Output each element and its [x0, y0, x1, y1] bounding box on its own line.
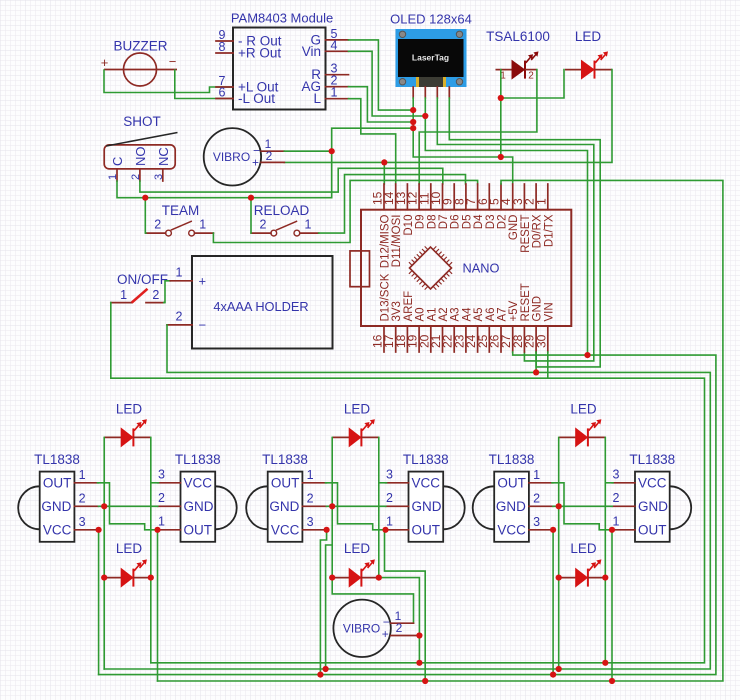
svg-text:+: + — [199, 274, 207, 289]
svg-text:1: 1 — [534, 198, 548, 205]
pin nano 26 stub — [500, 326, 502, 352]
wire buzzer- to PAM pin6 — [175, 70, 233, 99]
svg-text:+R Out: +R Out — [238, 46, 281, 61]
svg-text:-L Out: -L Out — [238, 91, 275, 106]
diode LED pair1 bottom — [104, 559, 151, 586]
switch ON/OFF lever — [132, 289, 148, 303]
svg-text:1: 1 — [107, 174, 119, 180]
pin TL1838 M1 1 stub — [74, 482, 98, 484]
svg-text:GND: GND — [269, 499, 299, 514]
svg-text:A2: A2 — [438, 307, 450, 321]
pin nano 29 stub — [535, 326, 537, 352]
pin ONOFF 2 stub — [146, 302, 164, 304]
svg-text:LED: LED — [344, 402, 371, 417]
pin 7 PAM stub — [216, 86, 233, 88]
junction OUT pair1 — [154, 527, 160, 533]
svg-text:4xAAA HOLDER: 4xAAA HOLDER — [213, 299, 308, 314]
pin nano 5 stub — [500, 184, 502, 210]
svg-text:NC: NC — [156, 147, 171, 166]
svg-text:6: 6 — [219, 86, 226, 100]
wire nano pin29 gnd drop — [535, 352, 537, 372]
svg-text:VCC: VCC — [271, 522, 300, 537]
pin TL1838 M4 1 stub — [386, 529, 409, 531]
svg-text:C: C — [110, 157, 125, 166]
pin TL1838 M3 2 stub — [302, 505, 326, 507]
pin 9 PAM stub — [216, 40, 233, 42]
wire OLED pinA gnd vertical — [413, 98, 501, 157]
svg-text:2: 2 — [154, 218, 161, 232]
svg-text:OLED 128x64: OLED 128x64 — [390, 12, 472, 27]
wire OLED pinC to nano pin28 — [437, 98, 594, 361]
svg-text:1: 1 — [331, 86, 338, 100]
pin TEAM 2 stub — [146, 232, 166, 234]
svg-text:GND: GND — [638, 499, 668, 514]
pin TL1838 M2 3 stub — [158, 482, 181, 484]
junction OUT pair3 — [382, 527, 388, 533]
pin TL1838 M2 2 stub — [158, 505, 181, 507]
pin TL1838 M1 3 stub — [74, 529, 98, 531]
svg-text:GND: GND — [508, 215, 520, 241]
svg-text:GND: GND — [41, 499, 71, 514]
motor VIBRO bottom — [333, 600, 390, 657]
wire GND row pair5 — [553, 505, 612, 507]
svg-text:OUT: OUT — [412, 522, 441, 537]
svg-text:D12/MISO: D12/MISO — [380, 214, 392, 268]
svg-text:A5: A5 — [473, 307, 485, 321]
svg-text:2: 2 — [266, 149, 273, 163]
svg-text:TL1838: TL1838 — [175, 452, 221, 467]
svg-text:NO: NO — [133, 147, 148, 167]
junction OLED pinA / PAM AG — [410, 119, 416, 125]
junction gnd bus / RELOAD — [248, 195, 254, 201]
svg-text:3: 3 — [533, 515, 540, 529]
pin TL1838 M5 2 stub — [529, 505, 553, 507]
pin TL1838 M5 3 stub — [529, 529, 553, 531]
wire OUT link pair3 — [326, 483, 386, 530]
svg-text:2: 2 — [533, 491, 540, 505]
wire VCC M1 to bus — [98, 530, 100, 675]
svg-text:+: + — [252, 156, 259, 170]
wire VCC M2 to led vertical — [151, 482, 159, 484]
wire LED right chain pair3 — [378, 437, 380, 577]
pin nano 22 stub — [453, 326, 455, 352]
junction LED2 left pair5 — [556, 575, 562, 581]
wire LED left chain pair5 — [558, 437, 560, 577]
pin nano 18 stub — [406, 326, 408, 352]
svg-text:D3: D3 — [485, 215, 497, 230]
wire nano +5V rail — [99, 352, 716, 675]
svg-text:OUT: OUT — [43, 475, 72, 490]
pin nano 12 stub — [418, 184, 420, 210]
pin SHOT 3 stub — [162, 169, 164, 181]
svg-text:2: 2 — [176, 310, 183, 324]
junction OUT pair5 — [609, 527, 615, 533]
svg-text:1: 1 — [613, 514, 620, 528]
svg-text:OUT: OUT — [497, 475, 526, 490]
module OLED display — [396, 29, 467, 87]
svg-text:D4: D4 — [473, 214, 485, 229]
switch TEAM contacts — [166, 221, 195, 236]
svg-text:3: 3 — [79, 515, 86, 529]
svg-text:GND: GND — [412, 499, 442, 514]
wire gnd chain to bus pair2 — [326, 545, 333, 669]
svg-text:TEAM: TEAM — [162, 203, 200, 218]
svg-text:LED: LED — [344, 541, 371, 556]
wire PAM Vin to OLED pinB — [349, 51, 426, 116]
pin 1 PAM stub — [326, 98, 349, 100]
svg-text:+5V: +5V — [508, 300, 520, 321]
pin TL1838 M5 1 stub — [529, 482, 553, 484]
pin nano 1 stub — [547, 184, 549, 210]
junction LED2 left pair3 — [329, 575, 335, 581]
svg-text:D9: D9 — [415, 215, 427, 230]
wire LED4 left to vibro- — [332, 578, 413, 624]
wire PAM G to OLED pinA — [349, 40, 414, 110]
module TL1838 M5 body — [473, 486, 495, 529]
pin nano 20 stub — [430, 326, 432, 352]
svg-text:2: 2 — [528, 71, 534, 82]
pin OLED 1 stub — [412, 87, 414, 98]
svg-text:A0: A0 — [415, 307, 427, 321]
wire LED right chain pair5 — [604, 437, 606, 577]
svg-text:A7: A7 — [497, 307, 509, 321]
wire LED right to vibro line — [284, 70, 612, 163]
wire OUT to bus pair1 — [157, 530, 159, 681]
junction OUT bus pair3 — [609, 678, 615, 684]
wire GND row pair3 — [327, 505, 386, 507]
junction OLED pinB / PAM Vin — [422, 113, 428, 119]
pin TL1838 M6 3 stub — [612, 482, 635, 484]
module TL1838 M2 body — [215, 486, 237, 529]
wire buzzer+ to PAM pin7 — [104, 70, 233, 93]
svg-text:AREF: AREF — [403, 291, 415, 322]
motor VIBRO top — [204, 128, 261, 185]
svg-text:30: 30 — [534, 334, 548, 348]
pin OLED 2 stub — [424, 87, 426, 98]
wire LED4 right to vibro+ and bus — [379, 578, 420, 663]
pin nano 8 stub — [465, 184, 467, 210]
svg-text:OUT: OUT — [271, 475, 300, 490]
junction +5V / OLED vcc — [584, 352, 590, 358]
wire SHOT C to gnd bus — [117, 128, 413, 198]
svg-text:1: 1 — [158, 514, 165, 528]
pin nano 28 stub — [523, 326, 525, 352]
pin SHOT 2 stub — [139, 169, 141, 181]
junction VCC M1 — [96, 527, 102, 533]
pin ONOFF 1 stub — [111, 302, 132, 304]
junction LED2 right pair3 — [376, 575, 382, 581]
diode LED top right — [565, 51, 612, 78]
svg-text:TSAL6100: TSAL6100 — [486, 29, 550, 44]
svg-text:3: 3 — [153, 174, 165, 180]
wire VCC M3 to bus — [320, 530, 326, 675]
pin TL1838 M6 2 stub — [612, 505, 635, 507]
wire OUT pair3 to bus — [611, 530, 613, 681]
pin TL1838 M4 2 stub — [386, 505, 409, 507]
svg-text:PAM8403 Module: PAM8403 Module — [231, 11, 333, 26]
junction vibro2 plus — [416, 632, 422, 638]
pin TL1838 M6 1 stub — [612, 529, 635, 531]
svg-text:2: 2 — [152, 288, 159, 302]
svg-text:2: 2 — [396, 621, 403, 635]
svg-text:1: 1 — [533, 468, 540, 482]
svg-text:RESET: RESET — [520, 283, 532, 321]
wire RELOAD 1 to nano pin8 — [319, 175, 466, 234]
wire OUT link pair5 — [552, 483, 612, 530]
wire LED1 left to gnd junction — [501, 70, 564, 98]
module TL1838 M4 body — [443, 486, 465, 529]
svg-text:1: 1 — [79, 468, 86, 482]
switch SHOT S1 — [104, 133, 177, 169]
svg-text:L: L — [313, 91, 321, 106]
wire PAM AG to OLED pinA — [349, 87, 414, 122]
pin 3 PAM stub — [326, 74, 349, 76]
pin nano 19 stub — [418, 326, 420, 352]
module TL1838 M1 box — [40, 472, 75, 542]
svg-text:2: 2 — [260, 218, 267, 232]
svg-text:+: + — [382, 627, 389, 641]
module TL1838 M6 box — [635, 472, 670, 542]
svg-text:TL1838: TL1838 — [403, 452, 449, 467]
pin nano 25 stub — [488, 326, 490, 352]
svg-text:+: + — [101, 55, 109, 70]
svg-text:TL1838: TL1838 — [629, 452, 675, 467]
wire LED left chain pair1 — [103, 437, 105, 577]
svg-text:D10: D10 — [403, 215, 415, 236]
svg-text:2: 2 — [158, 491, 165, 505]
junction VCC bus pair2 — [317, 672, 323, 678]
svg-text:3: 3 — [386, 467, 393, 481]
pin nano 6 stub — [488, 184, 490, 210]
junction LED2 left pair1 — [101, 575, 107, 581]
svg-text:2: 2 — [613, 491, 620, 505]
wire OUT link pair1 — [98, 483, 158, 530]
pin nano 2 stub — [535, 184, 537, 210]
svg-text:1: 1 — [176, 266, 183, 280]
pin nano 15 stub — [383, 184, 385, 210]
svg-text:1: 1 — [305, 218, 312, 232]
wire TEAM 1 to nano pin7 — [213, 180, 477, 242]
svg-text:A6: A6 — [485, 307, 497, 321]
pin nano 30 stub — [547, 326, 549, 352]
wire LED right chain pair1 — [150, 437, 152, 577]
svg-text:D11/MOSI: D11/MOSI — [391, 215, 403, 268]
svg-text:NANO: NANO — [463, 261, 500, 276]
diode LED pair3 bottom — [332, 559, 379, 586]
junction batt bus pair2 — [416, 660, 422, 666]
svg-text:D8: D8 — [426, 215, 438, 230]
wire gnd to nano pin4 — [501, 157, 513, 184]
svg-text:2: 2 — [130, 174, 142, 180]
junction gnd / LED left pair5 — [556, 503, 562, 509]
wire nano pin30 vin drop — [547, 352, 549, 378]
wire ONOFF2 to holder+ — [164, 281, 171, 303]
pin RELOAD 1 stub — [300, 232, 319, 234]
switch RELOAD contacts — [271, 221, 300, 236]
wire VCC M6 to led vertical — [605, 482, 613, 484]
svg-text:SHOT: SHOT — [123, 114, 161, 129]
nano box — [361, 210, 571, 326]
svg-text:LED: LED — [570, 541, 597, 556]
wire gnd chain to bus pair1 — [103, 578, 105, 669]
pin nano 10 stub — [442, 184, 444, 210]
pin TL1838 M3 3 stub — [302, 529, 326, 531]
svg-text:D0/RX: D0/RX — [532, 214, 544, 248]
pin TEAM 1 stub — [195, 232, 214, 234]
pin nano 7 stub — [477, 184, 479, 210]
pin nano 24 stub — [477, 326, 479, 352]
nano chip symbol — [409, 246, 452, 289]
diode TSAL6100 IR LED — [496, 51, 539, 78]
nano usb bump — [350, 251, 370, 287]
svg-text:D7: D7 — [438, 215, 450, 230]
wire vibro1 to gnd — [284, 150, 331, 152]
junction gnd bus pair3 — [556, 666, 562, 672]
wire TSAL pin1 gnd — [500, 70, 502, 157]
svg-text:2: 2 — [307, 491, 314, 505]
junction VCC M5 — [550, 527, 556, 533]
junction VCC bus pair3 — [550, 672, 556, 678]
pin SHOT 1 stub — [116, 169, 118, 181]
pin 8 PAM stub — [216, 52, 233, 54]
junction VCC M3 — [324, 527, 330, 533]
wire GND row pair1 — [99, 505, 158, 507]
svg-text:VCC: VCC — [184, 475, 213, 490]
pin vibro2 stub — [261, 161, 284, 163]
junction LED2 right pair5 — [602, 575, 608, 581]
wire TEAM 2 drop — [144, 198, 147, 233]
pin vibro1 stub — [261, 150, 284, 152]
svg-text:8: 8 — [219, 40, 226, 54]
pin nano 13 stub — [406, 184, 408, 210]
diode LED pair5 bottom — [559, 559, 606, 586]
junction batt bus pair3 — [602, 660, 608, 666]
pin nano 27 stub — [512, 326, 514, 352]
svg-text:TL1838: TL1838 — [34, 452, 80, 467]
svg-text:A4: A4 — [461, 307, 473, 322]
svg-text:2: 2 — [386, 491, 393, 505]
wire PAM L to nano pin14 — [349, 99, 396, 184]
svg-text:VCC: VCC — [638, 475, 667, 490]
buzzer BUZ1 — [104, 53, 177, 86]
svg-text:LED: LED — [575, 29, 602, 44]
svg-text:−: − — [169, 54, 177, 69]
svg-text:1: 1 — [386, 514, 393, 528]
pin OLED 4 stub — [448, 87, 450, 98]
module 4xAAA HOLDER — [192, 256, 333, 349]
wire SHOT NO to nano pin10 — [140, 168, 443, 192]
wire VCC M5 to bus — [552, 530, 554, 675]
svg-text:D1/TX: D1/TX — [543, 214, 555, 247]
pin 4 PAM stub — [326, 50, 349, 52]
pin vibro2-2 stub — [391, 635, 420, 637]
wire holder- gnd rail — [104, 325, 710, 669]
junction gnd bus pair2 — [323, 666, 329, 672]
junction gnd rail / nano pin29 — [533, 369, 539, 375]
svg-text:VIBRO: VIBRO — [343, 622, 380, 636]
module TL1838 M5 box — [494, 472, 529, 542]
svg-text:A1: A1 — [426, 307, 438, 321]
svg-text:−: − — [199, 318, 207, 333]
diode LED pair3 top — [332, 419, 379, 446]
pin 6 PAM stub — [216, 98, 233, 100]
pin nano 16 stub — [383, 326, 385, 352]
svg-text:D2: D2 — [497, 215, 509, 230]
wire TSAL pin2 to nano pin12 — [419, 70, 537, 184]
junction TSAL gnd / LED gnd — [498, 95, 504, 101]
module TL1838 M6 body — [670, 486, 692, 529]
junction OLED pinA / PAM G — [410, 107, 416, 113]
pin nano 3 stub — [523, 184, 525, 210]
module TL1838 M3 body — [246, 486, 268, 529]
pin nano 11 stub — [430, 184, 432, 210]
svg-text:VCC: VCC — [497, 522, 526, 537]
svg-text:D6: D6 — [450, 215, 462, 230]
svg-text:LED: LED — [116, 402, 143, 417]
svg-text:Vin: Vin — [302, 44, 321, 59]
pin nano 4 stub — [512, 184, 514, 210]
svg-text:3: 3 — [307, 515, 314, 529]
svg-text:A3: A3 — [450, 307, 462, 321]
pin holder 1 stub — [170, 280, 192, 282]
svg-text:OUT: OUT — [638, 522, 667, 537]
module PAM8403 U2 — [233, 28, 326, 110]
pin TL1838 M1 2 stub — [74, 505, 98, 507]
junction vibro minus — [329, 148, 335, 154]
svg-text:LED: LED — [570, 402, 597, 417]
svg-text:GND: GND — [532, 296, 544, 322]
pin nano 17 stub — [395, 326, 397, 352]
pin TL1838 M2 1 stub — [158, 529, 181, 531]
junction vibro line / nano pin15 — [381, 159, 387, 165]
junction TSAL gnd / nano GND — [498, 154, 504, 160]
svg-text:GND: GND — [184, 499, 214, 514]
pin 5 PAM stub — [326, 39, 349, 41]
junction gnd bus / TEAM — [142, 195, 148, 201]
svg-text:VCC: VCC — [412, 475, 441, 490]
pin OLED 3 stub — [436, 87, 438, 98]
junction LED2 right pair1 — [148, 575, 154, 581]
svg-text:LaserTag: LaserTag — [412, 53, 449, 63]
diode LED pair1 top — [104, 419, 151, 446]
svg-text:BUZZER: BUZZER — [114, 39, 168, 54]
svg-text:1: 1 — [120, 288, 127, 302]
svg-text:VCC: VCC — [43, 522, 72, 537]
svg-text:RESET: RESET — [520, 215, 532, 253]
svg-text:1: 1 — [199, 218, 206, 232]
wire gnd chain to bus pair3 — [558, 578, 560, 669]
diode LED pair5 top — [559, 419, 606, 446]
wire LED right pair3 to batt bus — [604, 578, 606, 663]
wire OLED pinD to nano pin29 — [449, 98, 600, 367]
svg-text:4: 4 — [331, 38, 338, 52]
svg-text:D5: D5 — [461, 215, 473, 230]
pin vibro2-1 stub — [391, 622, 414, 624]
wire LED right to batt bus pair1 — [150, 578, 152, 663]
svg-text:3: 3 — [158, 467, 165, 481]
pin holder 2 stub — [167, 324, 192, 326]
wire OUT pair2 to bus — [384, 530, 425, 681]
junction OLED pinA / vibro minus — [410, 125, 416, 131]
wire nano pin15 tap — [383, 162, 385, 184]
pin nano 14 stub — [395, 184, 397, 210]
svg-text:3V3: 3V3 — [391, 301, 403, 321]
svg-text:LED: LED — [116, 541, 143, 556]
wire LED left chain pair3 — [331, 437, 333, 577]
module TL1838 M4 box — [409, 472, 444, 542]
pin RELOAD 2 stub — [251, 232, 271, 234]
wire ONOFF1 to vin rail — [111, 303, 705, 663]
